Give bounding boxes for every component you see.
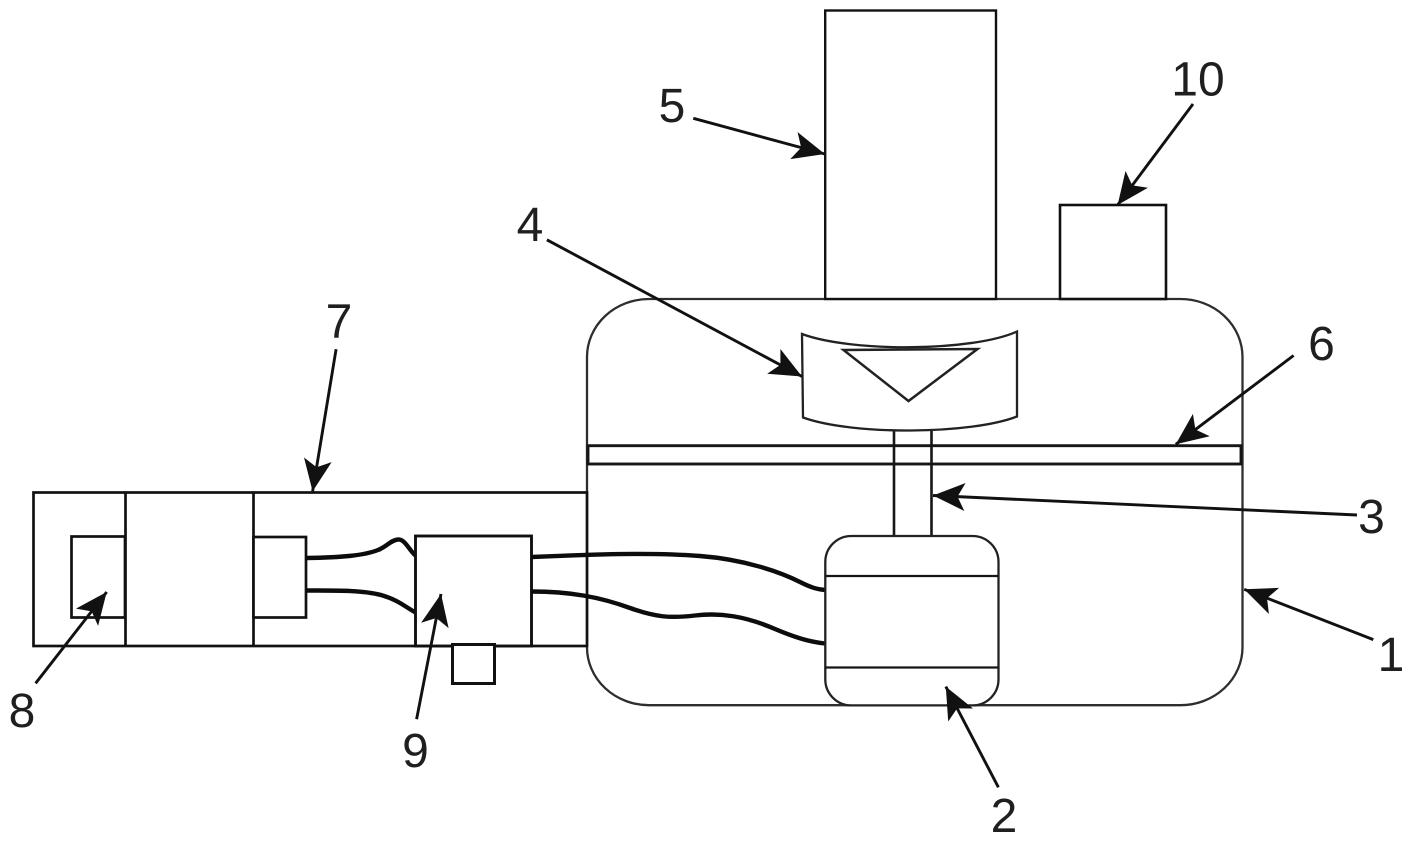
arm divider b <box>252 493 255 647</box>
svg-text:7: 7 <box>326 296 353 349</box>
arrow 10 <box>1118 104 1193 205</box>
hopper 4 <box>802 332 1017 431</box>
arm divider a <box>124 493 127 647</box>
svg-text:10: 10 <box>1171 54 1224 107</box>
svg-text:2: 2 <box>991 790 1018 843</box>
housing body 1 <box>587 299 1243 705</box>
control box 9 <box>416 536 532 646</box>
left arm 7 outer <box>34 493 588 647</box>
arrow 4 <box>547 240 802 377</box>
motor 2 <box>825 536 998 705</box>
svg-text:9: 9 <box>402 725 429 778</box>
wire A upper left <box>306 539 416 558</box>
hopper V vane <box>844 349 978 401</box>
arrow 6 <box>1176 356 1294 445</box>
motor bottom line <box>825 666 998 668</box>
svg-text:4: 4 <box>517 199 544 252</box>
connector block <box>254 537 307 618</box>
arrow 7 <box>313 349 337 491</box>
svg-text:3: 3 <box>1358 491 1385 544</box>
inner block 8 <box>72 537 126 618</box>
svg-text:8: 8 <box>9 685 36 738</box>
wire C upper right <box>532 554 826 590</box>
arrow 8 <box>36 592 107 683</box>
notch below 9 <box>453 645 495 684</box>
arrow 5 <box>693 118 825 154</box>
arrow 9 <box>417 594 441 719</box>
wire D lower right <box>532 592 826 644</box>
feed pipe 5 <box>825 11 996 300</box>
block 10 <box>1060 205 1166 299</box>
connecting rod 3 <box>893 430 896 537</box>
svg-text:1: 1 <box>1378 629 1405 682</box>
screen plate 6 <box>588 446 1241 464</box>
arrow 2 <box>946 687 999 788</box>
motor top line <box>825 575 998 577</box>
wire B lower left <box>306 590 416 612</box>
svg-text:5: 5 <box>659 80 686 133</box>
arrow 1 <box>1244 589 1373 639</box>
svg-text:6: 6 <box>1308 318 1335 371</box>
arrow 3 <box>933 496 1357 516</box>
